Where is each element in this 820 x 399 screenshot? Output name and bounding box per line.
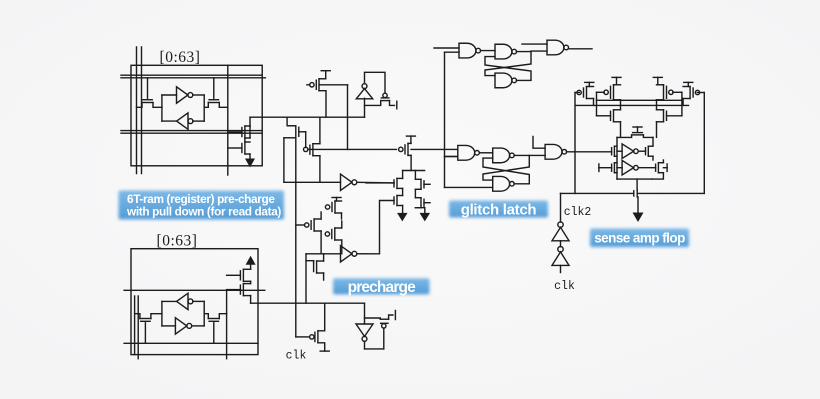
svg-text:with pull down (for read data): with pull down (for read data): [126, 205, 281, 219]
svg-text:[0:63]: [0:63]: [157, 233, 198, 250]
svg-text:sense amp flop: sense amp flop: [594, 231, 685, 246]
svg-text:clk: clk: [286, 350, 307, 363]
svg-text:[0:63]: [0:63]: [160, 49, 201, 66]
svg-text:glitch latch: glitch latch: [461, 201, 537, 218]
svg-text:precharge: precharge: [348, 279, 417, 296]
svg-text:clk2: clk2: [564, 206, 592, 219]
svg-text:clk: clk: [554, 280, 575, 293]
